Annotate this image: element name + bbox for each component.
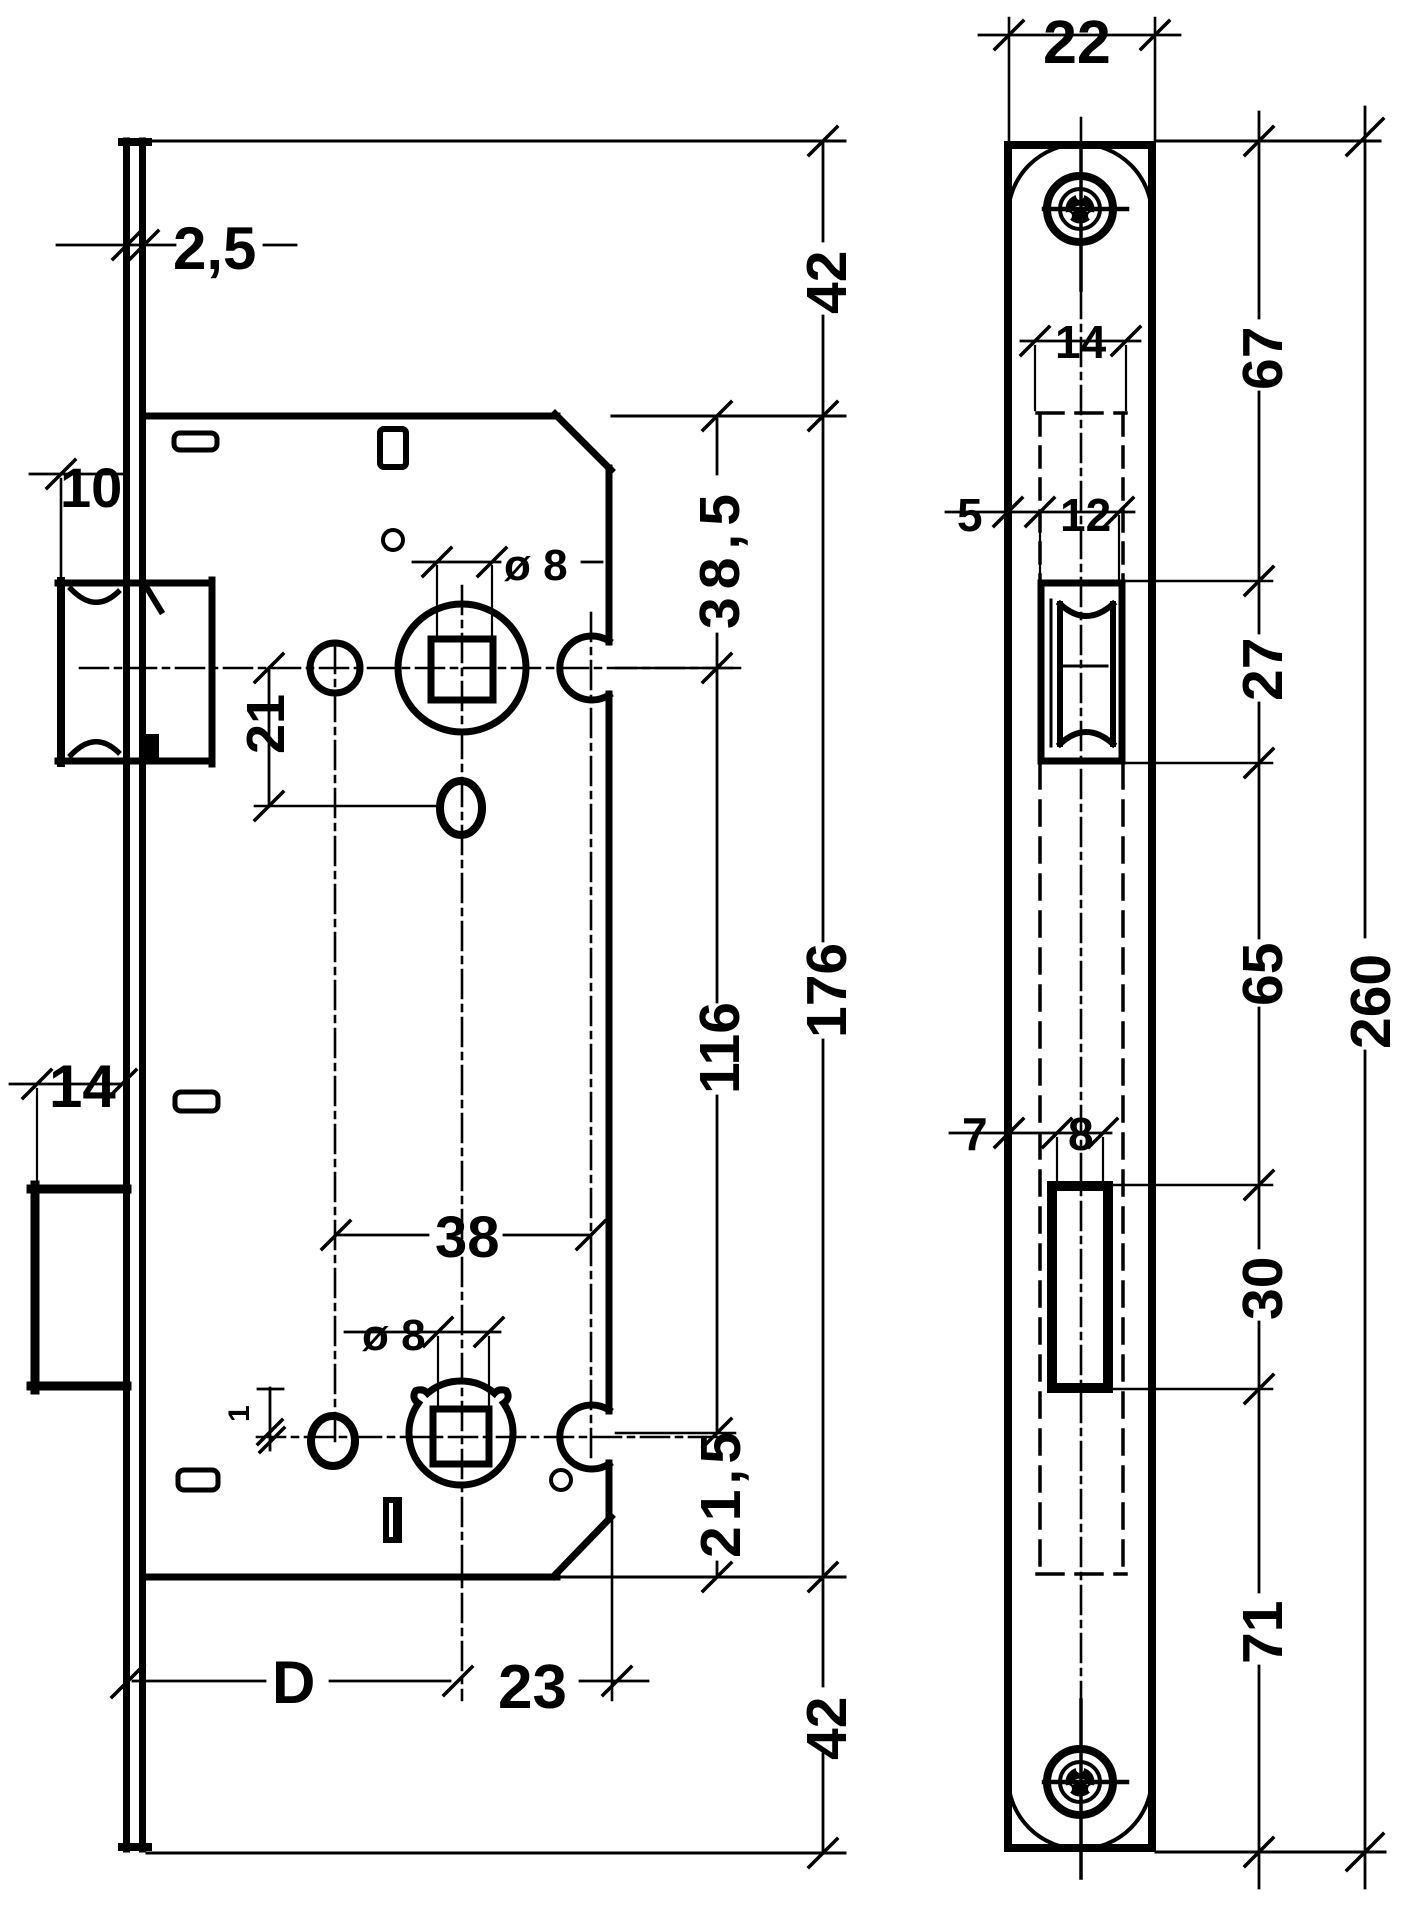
rivet slot top middle [380, 429, 406, 467]
svg-text:22: 22 [1043, 8, 1111, 76]
dimension 5 and 12 latch cutout [946, 489, 1134, 581]
auxiliary oval hole left of lower follower [311, 1416, 355, 1466]
dimension 1 lower follower offset [223, 1388, 284, 1452]
extension line bottom of case [562, 1576, 845, 1579]
latch cutout in faceplate [1041, 583, 1122, 761]
horizontal centerline through lower follower [257, 1436, 735, 1439]
faceplate (left view, edge-on) [122, 141, 148, 1849]
dimension column 42 / 176 / 42 at x=823 [795, 127, 859, 1867]
vertical centerline through followers [461, 586, 464, 1700]
dimension 7 and 8 deadbolt cutout [950, 1108, 1117, 1184]
svg-text:176: 176 [795, 943, 859, 1038]
svg-text:7: 7 [962, 1108, 988, 1160]
dimension 14 case width dashed [1021, 316, 1140, 410]
vertical centerline through edge notches [590, 613, 593, 1460]
dimension column 260 at x=1365 [1339, 107, 1403, 1888]
svg-text:5: 5 [957, 489, 983, 541]
rivet slot mid left [175, 1092, 218, 1111]
extension line bottom of faceplate [147, 1852, 845, 1855]
rivet slot lower left [178, 1470, 218, 1490]
dimension 10 latch protrusion [30, 456, 122, 577]
auxiliary hole left of upper follower [310, 643, 360, 693]
svg-text:38,5: 38,5 [688, 486, 752, 629]
dimension 2,5 faceplate thickness [57, 215, 296, 282]
faceplate bottom rounded-end arc [1008, 1777, 1152, 1849]
svg-text:D: D [272, 1649, 315, 1716]
lower follower hub with square spindle and rim notches [409, 1381, 513, 1485]
svg-text:116: 116 [688, 1002, 752, 1094]
svg-text:1: 1 [223, 1405, 256, 1422]
svg-text:27: 27 [1231, 638, 1295, 701]
svg-text:2,5: 2,5 [173, 215, 256, 282]
svg-text:30: 30 [1231, 1257, 1295, 1320]
bottom mounting screw (torx) [1044, 1700, 1127, 1878]
svg-text:42: 42 [795, 1697, 859, 1760]
vertical centerline through auxiliary holes [334, 645, 337, 1445]
svg-text:12: 12 [1060, 489, 1111, 541]
follower hub hole (upper) with square spindle [398, 604, 526, 732]
dimension o8 upper follower square [413, 541, 602, 638]
dimension column 38,5 / 116 / 21,5 at x=717 [688, 402, 753, 1591]
small pin hole upper area [383, 530, 403, 550]
svg-text:ø 8: ø 8 [362, 1311, 426, 1360]
deadbolt cutout in faceplate [1052, 1186, 1108, 1388]
svg-text:23: 23 [498, 1653, 567, 1722]
dimension o8 lower follower square [345, 1311, 503, 1407]
latch bolt (protruding, top) [58, 580, 212, 764]
svg-text:ø 8: ø 8 [504, 541, 568, 590]
oval hole below upper follower [440, 781, 482, 835]
extension line top of faceplate [123, 140, 845, 143]
small pin hole near lower notch [551, 1470, 571, 1490]
extension line right edge of case down [611, 1520, 614, 1700]
extension lines right view [1110, 141, 1385, 1852]
dimension column 67 / 27 / 65 / 30 / 71 at x=1259 [1231, 112, 1295, 1888]
svg-text:14: 14 [49, 1053, 116, 1120]
svg-text:71: 71 [1231, 1601, 1295, 1664]
lock case outline [146, 414, 611, 1577]
extension line top of case [612, 415, 845, 418]
dimension D backset and 23 [112, 1649, 648, 1722]
black slot below lower follower [383, 1497, 402, 1543]
extension line lower follower centerline [616, 1432, 735, 1435]
svg-text:8: 8 [1068, 1108, 1094, 1160]
svg-text:260: 260 [1339, 954, 1403, 1049]
rivet slot top left [174, 433, 217, 450]
svg-text:42: 42 [795, 251, 859, 314]
top mounting screw (torx) [1044, 150, 1127, 290]
faceplate outline (front view) [1008, 145, 1152, 1848]
svg-text:21: 21 [236, 694, 296, 754]
deadbolt (protruding, bottom) [31, 1185, 127, 1390]
svg-text:67: 67 [1231, 327, 1295, 390]
svg-text:38: 38 [435, 1205, 500, 1270]
extension line upper follower centerline [616, 667, 740, 670]
dashed hidden outline of lock case [1037, 413, 1126, 1574]
dimension 22 plate width [979, 8, 1180, 140]
dimension 21 follower to oval hole [236, 654, 438, 820]
dimension 14 deadbolt protrusion [10, 1053, 136, 1185]
svg-text:10: 10 [60, 456, 122, 519]
svg-text:14: 14 [1055, 316, 1107, 368]
horizontal centerline through upper follower [80, 667, 738, 670]
faceplate top rounded-end arc [1008, 144, 1152, 216]
svg-text:21,5: 21,5 [689, 1427, 753, 1558]
vertical centerline of faceplate [1080, 118, 1083, 150]
dimension 38 hole spacing [322, 1205, 605, 1270]
svg-text:65: 65 [1231, 943, 1295, 1006]
